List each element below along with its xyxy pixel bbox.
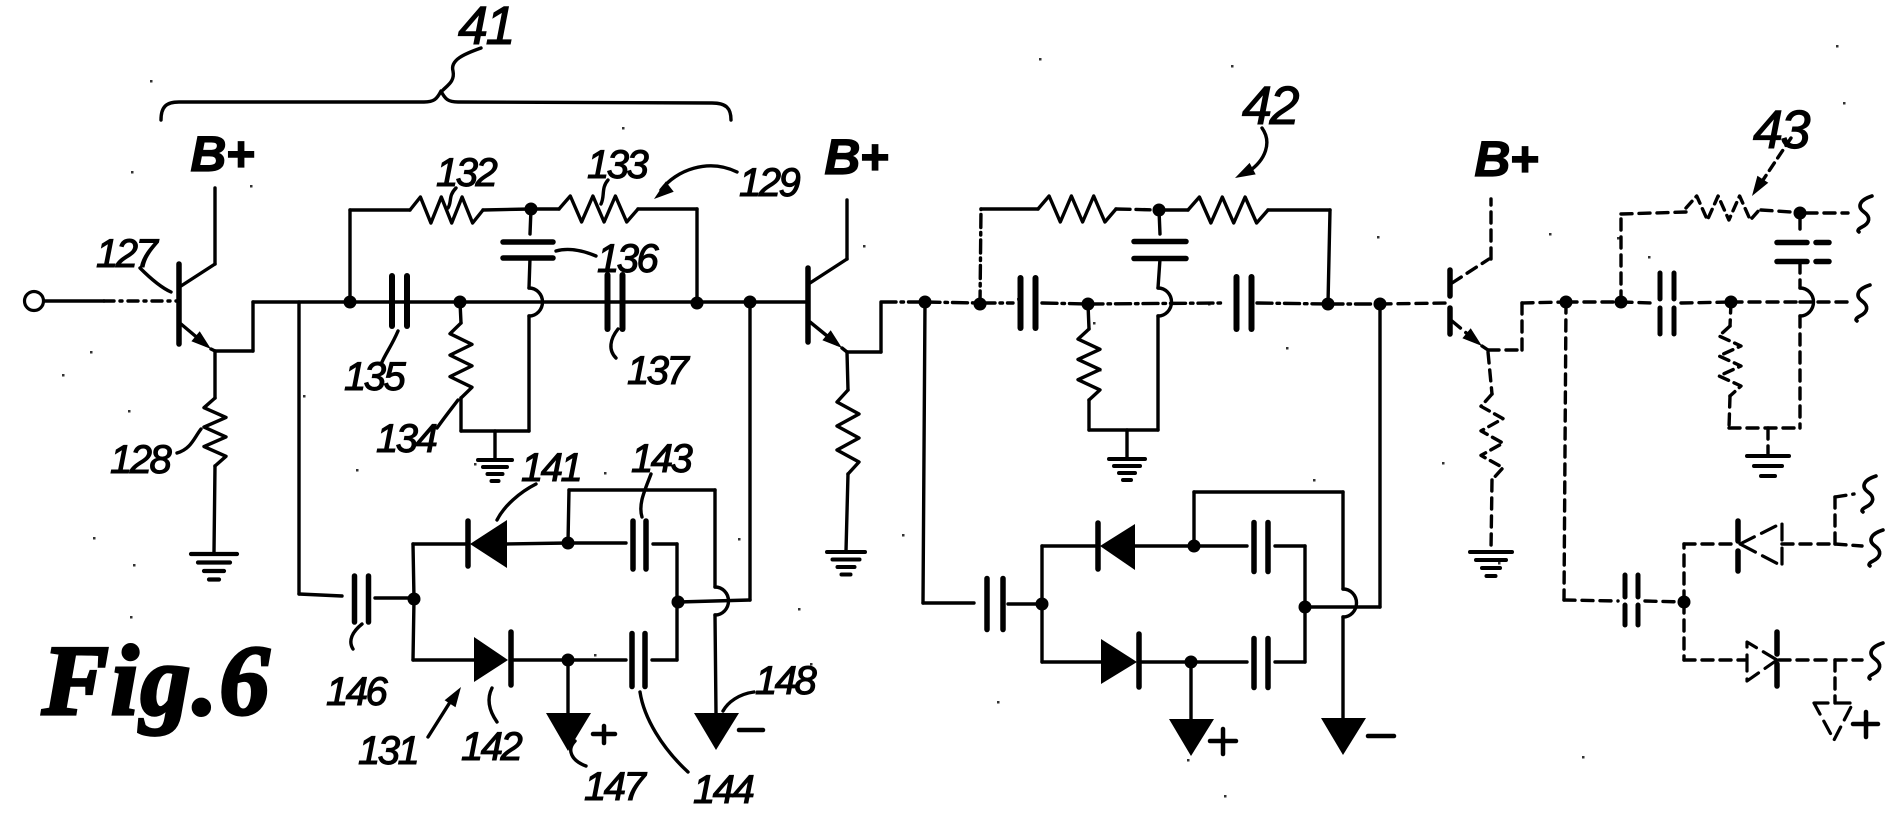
capacitor C136 <box>530 209 531 234</box>
node Q ring top stage2 <box>1188 540 1201 553</box>
leader 143 <box>641 474 651 517</box>
wire top rect C143 output <box>568 490 569 543</box>
resistor R128 <box>213 351 216 398</box>
wire top rail right <box>638 207 697 210</box>
label plus stage3 <box>1853 722 1878 727</box>
resistor R2e <box>847 352 848 390</box>
wire ring bottom left <box>413 658 474 661</box>
output arrow plus stage2 <box>1169 719 1214 756</box>
resistor R3a <box>1686 196 1761 220</box>
wire ring top left <box>413 542 468 545</box>
resistor R3e <box>1488 352 1492 394</box>
wire collector to B+ <box>213 188 216 264</box>
svg-text:148: 148 <box>755 659 817 703</box>
capacitor C2d <box>1194 544 1247 547</box>
capacitor C143 <box>568 541 626 544</box>
terminal squiggle rail <box>1858 196 1872 232</box>
capacitor C146 <box>352 576 358 622</box>
leader 147 <box>571 741 586 766</box>
leader 132 <box>448 188 456 208</box>
wire ring left down <box>413 599 414 660</box>
svg-text:133: 133 <box>587 143 648 187</box>
wire ring right lower <box>675 602 678 660</box>
svg-text:147: 147 <box>584 765 647 809</box>
wire bus stage2 mid <box>1042 303 1088 304</box>
leader 127 <box>140 268 171 292</box>
node N rail right stage2 <box>1322 298 1335 311</box>
wire bus into stage3 <box>1380 303 1448 304</box>
svg-text:B+: B+ <box>190 126 254 182</box>
leader 133 <box>601 180 608 204</box>
svg-text:135: 135 <box>344 355 406 399</box>
transistor Q127 collector <box>181 264 215 286</box>
arrow 129 <box>661 166 737 190</box>
svg-text:137: 137 <box>627 349 690 393</box>
svg-text:128: 128 <box>110 438 172 482</box>
wire ring left up <box>413 544 414 599</box>
wire after D3b <box>1779 658 1830 661</box>
leader 148 <box>723 692 754 711</box>
svg-text:141: 141 <box>521 446 580 490</box>
svg-text:143: 143 <box>631 437 692 481</box>
wire top rail stage3 <box>1621 212 1686 214</box>
capacitor C3m <box>1798 218 1801 235</box>
node C rail right on bus <box>691 297 704 310</box>
svg-text:134: 134 <box>376 417 436 461</box>
transistor Q3 collector <box>1452 259 1489 283</box>
wire rail right stage3 <box>1761 210 1791 212</box>
transistor Q127 emitter <box>181 324 206 345</box>
wire C2c to ring stage2 <box>1008 602 1042 605</box>
wire bus stage2 right <box>1257 303 1328 304</box>
wire top rail right stage2 <box>1268 208 1330 211</box>
wire C3m down with hop stage3 <box>1798 262 1801 288</box>
wire top rail left <box>350 208 410 211</box>
input terminal <box>25 292 44 311</box>
leader 128 <box>177 429 201 453</box>
svg-text:144: 144 <box>693 768 753 812</box>
node tee lower tap <box>297 302 300 594</box>
svg-text:131: 131 <box>358 729 417 773</box>
label minus stage2 <box>1368 734 1394 739</box>
resistor R133 <box>531 207 559 210</box>
wire ring right upper stage2 <box>1303 546 1306 607</box>
svg-text:Fig.6: Fig.6 <box>41 625 271 736</box>
svg-text:127: 127 <box>96 232 159 276</box>
leader 141 <box>497 484 536 520</box>
capacitor C3a <box>1658 273 1663 335</box>
leader 137 <box>611 329 618 358</box>
wire ring top mid <box>507 543 568 544</box>
wire ring bottom mid <box>511 658 568 661</box>
svg-text:142: 142 <box>461 725 522 769</box>
node T lower tap stage3 <box>1560 296 1573 309</box>
output arrow plus stage1 <box>546 713 591 751</box>
ground below Q2 <box>827 550 865 554</box>
wire Q2 collector to B+ <box>845 200 848 259</box>
wire lower left stage2 <box>923 601 974 604</box>
wire R2e to ground <box>846 474 848 551</box>
capacitor C3c <box>1623 575 1628 625</box>
wire Q2 emitter junction <box>842 348 847 352</box>
node U rail tap stage3 <box>1615 296 1628 309</box>
wire top rect stage2 <box>1192 492 1195 546</box>
diode D141 <box>465 521 471 566</box>
wire ring bottom left stage2 <box>1042 660 1101 663</box>
output arrow minus stage2 <box>1321 718 1366 755</box>
node B rail center <box>525 203 538 216</box>
wire rail vertical stage2 <box>980 209 981 304</box>
node D bus R134 tap <box>454 296 467 309</box>
diode D2a <box>1095 523 1101 569</box>
wire R134 C136 bottom join <box>461 429 529 432</box>
svg-text:41: 41 <box>458 0 513 56</box>
output arrow plus stage3 outline <box>1814 703 1853 740</box>
wire lower drop stage3 <box>1564 302 1566 600</box>
resistor R3c <box>1730 302 1731 326</box>
resistor R2c <box>1088 304 1089 329</box>
node G ring top <box>562 537 575 550</box>
wire C2m down with hop <box>1158 259 1160 288</box>
capacitor C2c <box>984 579 990 630</box>
node L rail center stage2 <box>1153 204 1166 217</box>
diode D3a <box>1735 521 1741 574</box>
node M bus R2c tap <box>1082 298 1095 311</box>
wire R128 to ground <box>214 466 215 552</box>
diode D3b <box>1747 642 1777 681</box>
terminal squiggle upper B <box>1869 530 1883 566</box>
svg-text:132: 132 <box>436 151 497 195</box>
transistor Q2 base bar <box>805 268 811 342</box>
arrow 131 <box>428 699 452 737</box>
transistor Q3 emitter <box>1452 321 1477 342</box>
node O lower right tap stage2 <box>1374 298 1387 311</box>
node E bus lower-right tap <box>744 296 757 309</box>
wire ring top left stage2 <box>1042 544 1098 547</box>
tee stage3 top <box>1833 497 1836 544</box>
leader 134 <box>437 400 458 428</box>
wire ring left up stage2 <box>1040 546 1043 604</box>
wire ring right upper <box>675 544 678 602</box>
ground stage1 mid <box>493 431 496 459</box>
resistor R132 <box>410 197 483 223</box>
terminal squiggle lower <box>1869 643 1883 679</box>
svg-text:129: 129 <box>739 161 800 205</box>
svg-text:42: 42 <box>1242 76 1300 136</box>
wire R2c C2m bottom join <box>1089 428 1158 431</box>
svg-text:B+: B+ <box>1474 131 1538 187</box>
ground stage2 mid <box>1125 430 1128 458</box>
wire Q3 collector to B+ <box>1489 199 1492 259</box>
wire branch up stage3 <box>1682 544 1685 602</box>
ground below R128 <box>191 552 237 556</box>
wire after D3a <box>1782 542 1830 545</box>
node R ring right stage2 <box>1299 601 1312 614</box>
diode D2b <box>1101 639 1137 684</box>
wire ring left down stage2 <box>1040 604 1043 662</box>
leader 146 <box>351 624 362 649</box>
svg-text:146: 146 <box>326 670 388 714</box>
capacitor C147 <box>568 658 626 661</box>
wire to squiggle C <box>1835 658 1862 661</box>
node J lower tap stage2 <box>919 296 932 309</box>
transistor Q2 emitter <box>810 322 837 344</box>
wire bus drop to ring right <box>748 302 751 600</box>
node W bus R3c tap <box>1725 296 1738 309</box>
leader 142 <box>489 688 497 722</box>
capacitor C2a <box>1018 278 1024 328</box>
output arrow minus stage1 <box>694 713 739 750</box>
diode D142 <box>474 637 508 682</box>
wire branch down stage3 <box>1682 602 1685 660</box>
brace 41 <box>161 91 731 120</box>
leader 136 <box>556 249 596 256</box>
wire lower left stage3 <box>1564 600 1618 601</box>
wire ring top mid stage2 <box>1135 544 1194 547</box>
node I ring bottom <box>562 654 575 667</box>
wire lower drop stage2 <box>923 302 925 603</box>
wire plus drop stage2 <box>1189 662 1192 719</box>
wire ring right lower stage2 <box>1303 607 1306 662</box>
transistor Q2 collector <box>810 259 847 283</box>
resistor R2a <box>1038 196 1116 222</box>
node H ring right <box>672 596 685 609</box>
capacitor C135 <box>389 276 395 326</box>
label plus stage1 <box>593 732 615 737</box>
node P ring left stage2 <box>1036 598 1049 611</box>
wire C3c to node stage3 <box>1645 601 1684 602</box>
leader 135 <box>382 331 398 362</box>
wire top rail stage2 left <box>981 207 1038 210</box>
wire rect down with hop <box>713 490 716 587</box>
wire Q3 emitter junction <box>1482 346 1488 350</box>
wire input to base of Q127 <box>44 299 104 302</box>
wire rail left vertical <box>348 210 351 302</box>
wire C146 to ring <box>375 596 414 599</box>
capacitor C2m <box>1159 210 1160 234</box>
transistor Q3 base bar <box>1447 270 1453 341</box>
terminal squiggle upper A <box>1862 476 1876 512</box>
wire bus stage2 <box>881 300 925 303</box>
wire rail mid <box>483 209 531 210</box>
node V rail stage3 <box>1794 207 1807 220</box>
wire rect down with hop stage2 <box>1341 492 1344 589</box>
node A rail tap <box>344 296 357 309</box>
wire bus stage3 <box>1522 302 1566 303</box>
wire branch top stage3 <box>1684 542 1736 545</box>
resistor R2b <box>1159 208 1188 211</box>
node K rail tap stage2 <box>974 298 987 311</box>
svg-text:B+: B+ <box>824 129 888 185</box>
terminal squiggle bus <box>1856 285 1870 321</box>
capacitor C2b <box>1234 277 1240 329</box>
wire plus drop stage1 <box>566 660 569 713</box>
wire R3c bottom join <box>1729 396 1730 428</box>
wire plus drop stage3 <box>1833 660 1836 703</box>
label minus stage1 <box>739 728 763 733</box>
wire rail vertical stage3 <box>1619 214 1622 302</box>
wire lower left <box>299 594 342 596</box>
arrow 42 <box>1248 128 1267 172</box>
ground stage3 mid <box>1766 428 1769 454</box>
wire ring bottom mid stage2 <box>1139 660 1191 663</box>
leader 41 <box>443 48 481 90</box>
wire bus drop to ring right stage2 <box>1378 304 1381 607</box>
wire branch bottom stage3 <box>1684 658 1745 661</box>
noise specks <box>622 127 625 130</box>
wire bus stage3 right <box>1731 300 1800 303</box>
arrow 43 <box>1763 138 1791 180</box>
ground below Q3 <box>1470 550 1512 554</box>
wire main bus stage1 <box>253 300 808 303</box>
node S ring bottom stage2 <box>1185 656 1198 669</box>
capacitor C2e <box>1191 660 1247 663</box>
label plus stage2 <box>1210 739 1236 744</box>
wire emitter junction <box>211 349 215 351</box>
wire R3e to ground <box>1491 480 1492 550</box>
wire to squiggle B <box>1835 544 1862 546</box>
capacitor C137 <box>605 275 611 329</box>
resistor R134 <box>460 302 461 323</box>
transistor Q127 base bar <box>176 264 182 344</box>
node X ring stage3 <box>1678 596 1691 609</box>
leader 144 <box>640 692 688 772</box>
wire rail mid stage2 <box>1116 209 1159 210</box>
wire C136 down with hop over bus <box>529 258 530 288</box>
node F ring left <box>408 593 421 606</box>
wire bus stage3 mid <box>1621 302 1653 303</box>
